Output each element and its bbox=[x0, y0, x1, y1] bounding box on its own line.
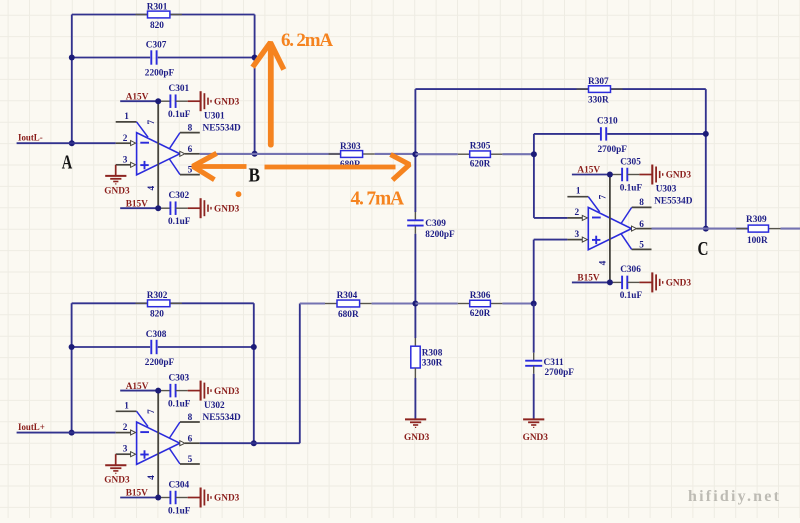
U303 pin 6 output marker bbox=[632, 220, 652, 231]
svg-text:2200pF: 2200pF bbox=[145, 358, 175, 368]
wire: C307 branch bbox=[72, 57, 255, 59]
svg-text:4: 4 bbox=[147, 475, 157, 480]
wire: R307 feedback loop bbox=[415, 89, 705, 229]
capacitor C310 2700pF bbox=[597, 117, 627, 156]
ground GND3 for C303 bbox=[188, 381, 240, 401]
svg-text:GND3: GND3 bbox=[214, 387, 240, 397]
junction at B15V pin bbox=[155, 495, 161, 501]
svg-text:A15V: A15V bbox=[126, 92, 149, 102]
svg-text:0.1uF: 0.1uF bbox=[620, 183, 643, 193]
junction dots center column bbox=[412, 151, 418, 157]
junction at B15V pin bbox=[607, 279, 613, 285]
svg-text:R304: R304 bbox=[337, 291, 358, 301]
svg-text:GND3: GND3 bbox=[404, 433, 430, 443]
wire: feedback top loop U302 bbox=[72, 303, 254, 443]
svg-text:2: 2 bbox=[123, 423, 128, 433]
svg-text:GND3: GND3 bbox=[666, 279, 692, 289]
svg-text:GND3: GND3 bbox=[214, 204, 240, 214]
svg-text:3: 3 bbox=[123, 445, 128, 455]
U301 pin 1 stub bbox=[116, 112, 148, 137]
U303 pin 7 / pin 4 vertical bbox=[599, 176, 610, 283]
wire: node to U303 pin2 bbox=[534, 134, 568, 218]
svg-text:2700pF: 2700pF bbox=[545, 368, 575, 378]
svg-text:6. 2mA: 6. 2mA bbox=[281, 30, 333, 51]
wire: node to U303 pin3 bbox=[534, 240, 568, 304]
svg-text:B: B bbox=[249, 165, 261, 187]
junction at A15V pin bbox=[155, 98, 161, 104]
svg-text:8: 8 bbox=[188, 413, 193, 423]
U303 pin 3 marker bbox=[582, 237, 587, 242]
svg-text:8200pF: 8200pF bbox=[425, 230, 455, 240]
capacitor C308 2200pF bbox=[145, 330, 175, 368]
op-amp U303 triangle bbox=[588, 207, 631, 249]
wire: R305 row bbox=[415, 153, 534, 155]
U303 pin 8 stub bbox=[621, 198, 651, 223]
svg-text:5: 5 bbox=[639, 240, 644, 250]
svg-text:4: 4 bbox=[147, 186, 157, 191]
svg-text:330R: 330R bbox=[422, 359, 443, 369]
svg-text:R306: R306 bbox=[470, 291, 491, 301]
U303 pin 3 stub bbox=[567, 230, 582, 240]
svg-text:1: 1 bbox=[576, 187, 581, 197]
U302 pin 5 stub bbox=[169, 448, 199, 465]
svg-text:C307: C307 bbox=[146, 40, 167, 50]
svg-text:2700pF: 2700pF bbox=[598, 145, 628, 155]
svg-text:6: 6 bbox=[188, 434, 193, 444]
junction dots U302 loop bbox=[69, 344, 75, 350]
power net B15V bbox=[120, 199, 158, 209]
junction at A15V pin bbox=[607, 172, 613, 178]
svg-text:3: 3 bbox=[575, 230, 580, 240]
svg-text:0.1uF: 0.1uF bbox=[168, 217, 191, 227]
capacitor C303 0.1uF bbox=[158, 373, 191, 409]
ground GND3 at U302 pin3 bbox=[104, 454, 130, 486]
U303 pin 2 marker bbox=[582, 215, 587, 220]
U302 pin 3 stub bbox=[116, 445, 131, 455]
svg-text:GND3: GND3 bbox=[214, 494, 240, 504]
capacitor C311 2700pF bbox=[525, 304, 574, 420]
svg-text:U302: U302 bbox=[204, 401, 225, 411]
svg-text:0.1uF: 0.1uF bbox=[168, 399, 191, 409]
svg-text:R308: R308 bbox=[422, 349, 443, 359]
wire: U302 output to R304 riser bbox=[200, 304, 300, 444]
power net B15V bbox=[120, 489, 158, 499]
svg-text:B15V: B15V bbox=[126, 489, 148, 499]
svg-text:820: 820 bbox=[150, 310, 164, 320]
U302 pin 6 output marker bbox=[180, 434, 200, 445]
wire: R304 row bbox=[300, 302, 416, 304]
resistor R305 620R bbox=[458, 142, 503, 170]
svg-text:6: 6 bbox=[188, 145, 193, 155]
op-amp U302 triangle bbox=[137, 422, 180, 464]
wire: center vertical node B-C bbox=[414, 89, 416, 346]
capacitor C301 0.1uF bbox=[158, 84, 191, 120]
junction dots U303 feedback bbox=[703, 131, 709, 137]
annotation arrow left at B bbox=[193, 153, 247, 179]
capacitor C305 0.1uF bbox=[610, 157, 643, 193]
U302 pin 2 input stub bbox=[116, 423, 131, 433]
resistor R304 680R bbox=[325, 291, 372, 320]
svg-text:8: 8 bbox=[639, 198, 644, 208]
svg-text:NE5534D: NE5534D bbox=[203, 123, 242, 133]
svg-text:R301: R301 bbox=[147, 2, 168, 12]
wire: U303 output to R309 bbox=[652, 228, 752, 230]
resistor R303 680R bbox=[329, 142, 375, 170]
svg-text:7: 7 bbox=[147, 409, 157, 414]
svg-text:NE5534D: NE5534D bbox=[654, 197, 693, 207]
svg-text:C310: C310 bbox=[597, 117, 618, 127]
ground GND3 for C305 bbox=[639, 165, 691, 185]
svg-text:GND3: GND3 bbox=[523, 433, 549, 443]
svg-text:3: 3 bbox=[123, 155, 128, 165]
svg-text:4: 4 bbox=[599, 260, 609, 265]
input net IoutL+ bbox=[17, 422, 116, 433]
wire: C310 branch bbox=[534, 133, 706, 135]
ground GND3 for C306 bbox=[639, 272, 691, 292]
junction dots U301 loop bbox=[69, 55, 75, 61]
svg-text:C311: C311 bbox=[544, 358, 564, 368]
svg-text:B15V: B15V bbox=[126, 199, 148, 209]
svg-text:C305: C305 bbox=[620, 157, 641, 167]
U301 pin 6 output marker bbox=[180, 145, 200, 156]
svg-text:2200pF: 2200pF bbox=[145, 69, 175, 79]
ground GND3 for C304 bbox=[188, 488, 240, 508]
svg-text:0.1uF: 0.1uF bbox=[620, 291, 643, 301]
svg-text:A15V: A15V bbox=[126, 382, 149, 392]
svg-text:R303: R303 bbox=[340, 142, 361, 152]
resistor R308 330R bbox=[411, 346, 443, 368]
op-amp U301 triangle bbox=[137, 133, 180, 175]
svg-text:C303: C303 bbox=[169, 373, 190, 383]
svg-text:C306: C306 bbox=[620, 265, 641, 275]
wire: U301 output to R303 bbox=[200, 153, 341, 155]
svg-text:GND3: GND3 bbox=[214, 97, 240, 107]
U301 pin 7 / pin 4 vertical bbox=[147, 101, 158, 208]
input net IoutL- bbox=[17, 133, 116, 144]
svg-text:6: 6 bbox=[639, 220, 644, 230]
resistor R307 330R bbox=[577, 77, 623, 105]
svg-text:C301: C301 bbox=[169, 84, 190, 94]
svg-text:820: 820 bbox=[150, 21, 164, 31]
svg-text:R309: R309 bbox=[746, 215, 767, 225]
U303 pin 5 stub bbox=[621, 234, 651, 251]
svg-text:R302: R302 bbox=[147, 291, 168, 301]
U301 pin 2 marker bbox=[131, 141, 136, 146]
svg-text:620R: 620R bbox=[470, 160, 491, 170]
U302 pin 2 marker bbox=[131, 430, 136, 435]
U301 pin 3 stub bbox=[116, 155, 131, 165]
svg-text:C308: C308 bbox=[146, 330, 167, 340]
svg-text:2: 2 bbox=[123, 134, 128, 144]
U302 pin 3 marker bbox=[131, 452, 136, 457]
annotation orange dot bbox=[236, 191, 242, 197]
svg-text:GND3: GND3 bbox=[104, 186, 130, 196]
capacitor C309 8200pF bbox=[407, 219, 455, 240]
svg-text:680R: 680R bbox=[338, 310, 359, 320]
capacitor C304 0.1uF bbox=[158, 480, 191, 516]
svg-text:0.1uF: 0.1uF bbox=[168, 506, 191, 516]
svg-text:C309: C309 bbox=[425, 219, 446, 229]
svg-text:100R: 100R bbox=[747, 236, 768, 246]
svg-text:GND3: GND3 bbox=[666, 171, 692, 181]
ground GND3 for C302 bbox=[188, 198, 240, 218]
wire: R306 row bbox=[415, 302, 533, 304]
svg-text:5: 5 bbox=[188, 455, 193, 465]
svg-text:0.1uF: 0.1uF bbox=[168, 110, 191, 120]
svg-text:R307: R307 bbox=[588, 77, 609, 87]
svg-text:7: 7 bbox=[599, 194, 609, 199]
junction at B15V pin bbox=[155, 205, 161, 211]
U302 pin 8 stub bbox=[169, 413, 199, 438]
resistor R301 820 bbox=[136, 2, 182, 31]
ground GND3 under R308 bbox=[404, 419, 430, 442]
svg-text:U303: U303 bbox=[656, 185, 677, 195]
svg-text:IoutL+: IoutL+ bbox=[18, 422, 45, 432]
wire: R303 to center node bbox=[375, 153, 416, 155]
svg-text:1: 1 bbox=[124, 401, 129, 411]
svg-text:A: A bbox=[62, 151, 73, 173]
svg-text:4. 7mA: 4. 7mA bbox=[351, 188, 404, 209]
svg-text:C304: C304 bbox=[169, 480, 190, 490]
U302 pin 7 / pin 4 vertical bbox=[147, 391, 158, 498]
resistor R306 620R bbox=[458, 291, 503, 319]
annotation shaft right with arrowhead 4.7mA bbox=[265, 155, 410, 181]
capacitor C302 0.1uF bbox=[158, 191, 191, 227]
U303 pin 1 stub bbox=[567, 187, 599, 212]
svg-text:8: 8 bbox=[188, 123, 193, 133]
svg-text:330R: 330R bbox=[588, 96, 609, 106]
svg-text:7: 7 bbox=[147, 120, 157, 125]
resistor R309 100R bbox=[736, 215, 780, 246]
power net A15V bbox=[120, 382, 158, 392]
svg-text:C: C bbox=[698, 238, 709, 260]
svg-text:620R: 620R bbox=[470, 309, 491, 319]
U302 pin 1 stub bbox=[116, 401, 148, 426]
wire: R308 to ground bbox=[414, 368, 416, 378]
junction at A15V pin bbox=[155, 388, 161, 394]
junction dots right column bbox=[531, 151, 537, 157]
U301 pin 3 marker bbox=[131, 162, 136, 167]
wire: feedback top loop U301 bbox=[72, 15, 255, 154]
annotation arrow up 6.2mA bbox=[253, 42, 284, 147]
power net A15V bbox=[120, 92, 158, 102]
ground GND3 at U301 pin3 bbox=[104, 165, 130, 197]
U301 pin 2 input stub bbox=[116, 134, 131, 144]
svg-text:NE5534D: NE5534D bbox=[203, 413, 242, 423]
ground GND3 under C311 bbox=[523, 419, 549, 442]
power net A15V bbox=[572, 166, 610, 176]
svg-text:U301: U301 bbox=[204, 111, 225, 121]
svg-text:A15V: A15V bbox=[577, 166, 600, 176]
U303 pin 2 stub bbox=[567, 208, 582, 218]
svg-text:C302: C302 bbox=[169, 191, 190, 201]
wire: C308 branch bbox=[72, 346, 254, 348]
power net B15V bbox=[572, 274, 610, 284]
svg-text:2: 2 bbox=[575, 208, 580, 218]
svg-text:R305: R305 bbox=[470, 142, 491, 152]
svg-text:B15V: B15V bbox=[577, 274, 599, 284]
capacitor C306 0.1uF bbox=[610, 265, 643, 301]
wire: output to edge bbox=[781, 228, 800, 230]
capacitor C307 2200pF bbox=[145, 40, 175, 78]
U301 pin 5 stub bbox=[169, 159, 199, 176]
svg-text:hifidiy.net: hifidiy.net bbox=[688, 488, 781, 505]
svg-text:IoutL-: IoutL- bbox=[18, 133, 43, 143]
U301 pin 8 stub bbox=[169, 123, 199, 148]
svg-text:1: 1 bbox=[124, 112, 129, 122]
resistor R302 820 bbox=[136, 291, 182, 320]
ground GND3 for C301 bbox=[188, 91, 240, 111]
svg-text:GND3: GND3 bbox=[104, 476, 130, 486]
